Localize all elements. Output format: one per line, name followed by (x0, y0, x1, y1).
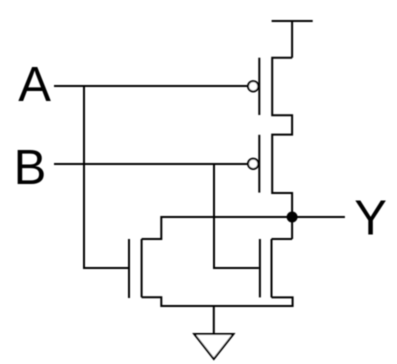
svg-text:Y: Y (354, 192, 387, 246)
svg-text:A: A (18, 58, 51, 112)
svg-text:B: B (14, 141, 47, 195)
